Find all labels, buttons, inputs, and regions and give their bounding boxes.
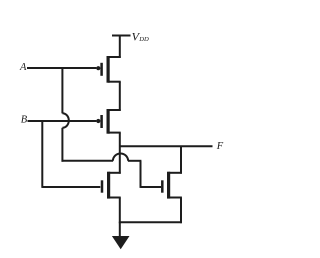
svg-text:B: B xyxy=(21,115,28,126)
svg-text:F: F xyxy=(216,141,224,152)
svg-text:A: A xyxy=(19,62,27,73)
svg-text:DD: DD xyxy=(138,36,149,43)
